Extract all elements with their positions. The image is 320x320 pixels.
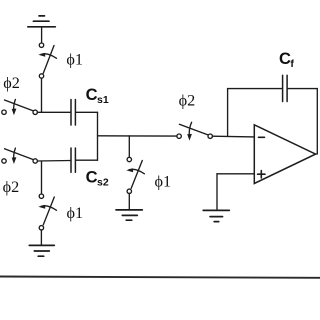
op-amp U1 <box>254 125 315 184</box>
wire (op-amp output stub) <box>316 153 318 155</box>
svg-text:ϕ1: ϕ1 <box>155 173 172 191</box>
svg-text:ϕ2: ϕ2 <box>3 178 20 196</box>
wire (stub down to middle phi1 switch) <box>128 136 130 157</box>
svg-text:C: C <box>279 50 291 68</box>
wire (Cs1 right plate to bus) <box>76 111 98 113</box>
svg-text:ϕ1: ϕ1 <box>66 51 83 69</box>
wire (lower input to Cs2) <box>37 160 70 163</box>
ground (op-amp non-inverting) <box>203 210 229 221</box>
switch phi1 middle (to ground) <box>126 157 144 193</box>
wire (feedback vertical riser) <box>227 89 229 137</box>
wire (summing node horizontal) <box>98 135 177 137</box>
svg-text:s2: s2 <box>97 177 109 189</box>
switch phi2 upper-left input <box>2 99 38 115</box>
wire (lower node vertical down to phi1 switch) <box>41 161 43 194</box>
wire (Cs2 right plate to bus) <box>76 159 98 161</box>
capacitor Cs1 <box>71 100 75 126</box>
ground (top, above phi1 switch) <box>28 16 56 43</box>
wire (output node vertical down to op-amp output) <box>316 89 318 154</box>
wire (right vertical bus) <box>97 112 99 160</box>
wire (upper input to Cs1) <box>37 111 70 113</box>
switch phi1 bottom-left <box>38 194 56 230</box>
switch phi1 top <box>38 43 56 78</box>
label Cs1 <box>86 86 109 106</box>
wire (top node vertical) <box>41 78 43 112</box>
bottom rule <box>0 277 320 278</box>
ground (bottom-left) <box>29 245 54 256</box>
wire (feedback top to Cf) <box>228 88 283 90</box>
wire (switch to ground stem) <box>40 230 42 245</box>
svg-text:ϕ1: ϕ1 <box>67 204 84 222</box>
switch phi2 middle (series to op-amp) <box>177 122 212 140</box>
wire (non-inverting input down to ground) <box>216 174 218 211</box>
capacitor Cf <box>283 75 288 101</box>
ground (middle) <box>116 210 142 220</box>
svg-text:f: f <box>290 58 294 70</box>
svg-text:ϕ2: ϕ2 <box>3 74 20 92</box>
wire (switch to op-amp inverting input) <box>212 135 254 138</box>
label Cf <box>279 50 294 70</box>
capacitor Cs2 <box>71 148 75 172</box>
wire (non-inverting input) <box>217 173 254 175</box>
label Cs2 <box>86 168 109 188</box>
svg-text:C: C <box>86 168 98 186</box>
wire (middle switch to ground stem) <box>128 194 130 210</box>
svg-text:C: C <box>86 86 98 104</box>
wire (Cf to output node) <box>288 88 318 90</box>
svg-text:s1: s1 <box>97 94 109 106</box>
svg-text:ϕ2: ϕ2 <box>179 91 196 109</box>
switch phi2 lower-left input <box>2 148 38 164</box>
